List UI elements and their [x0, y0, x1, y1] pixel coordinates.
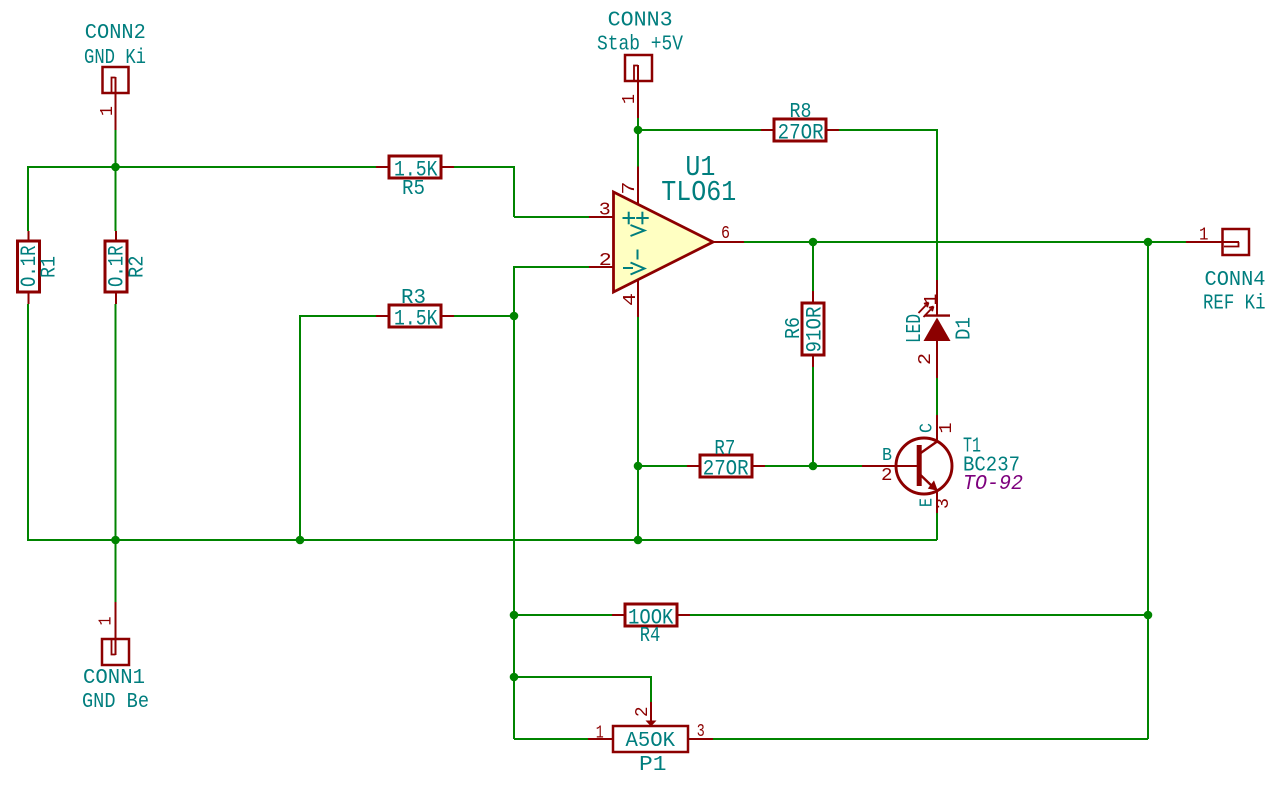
transistor T1 base pin	[862, 465, 917, 467]
resistor R4 body	[625, 604, 677, 626]
resistor R7 pins	[687, 465, 700, 467]
wire inverting input vertical	[513, 266, 515, 739]
pin name - of U1 pin 2	[623, 267, 633, 269]
resistor R3 pins	[376, 315, 389, 317]
op-amp U1 body	[614, 192, 714, 292]
LED D1 body	[924, 316, 951, 341]
svg-text:B: B	[882, 446, 892, 466]
resistor R7 body	[700, 455, 752, 477]
svg-text:TO-92: TO-92	[963, 473, 1023, 496]
wire to P1 pin 1	[514, 738, 588, 740]
wire to wiper horizontal	[514, 676, 651, 678]
svg-text:2: 2	[916, 353, 936, 365]
potentiometer P1 body	[613, 726, 688, 752]
svg-text:1: 1	[937, 423, 957, 434]
svg-text:REF Ki: REF Ki	[1203, 293, 1266, 316]
wire corner down to LED	[936, 129, 938, 280]
junction R6 / R7	[809, 462, 818, 471]
wire R8 to corner	[838, 129, 938, 131]
resistor R5 body	[389, 156, 441, 178]
svg-text:R5: R5	[402, 178, 425, 201]
LED D1 light arrows	[919, 303, 934, 318]
svg-text:1: 1	[596, 724, 604, 744]
svg-text:2: 2	[633, 707, 653, 718]
svg-text:R2: R2	[127, 256, 150, 279]
wire op-amp pin 2 horizontal	[514, 266, 589, 268]
svg-text:27OR: 27OR	[778, 121, 824, 146]
svg-text:1: 1	[922, 294, 942, 306]
wire op-amp pin 4 down	[637, 317, 639, 540]
svg-text:GND Ki: GND Ki	[84, 47, 146, 70]
junction inverting node	[510, 312, 519, 321]
svg-text:R3: R3	[401, 287, 426, 310]
svg-text:A5OK: A5OK	[626, 730, 676, 753]
wire R1 bottom	[27, 304, 29, 540]
junction +5V node	[634, 126, 643, 135]
svg-text:TLO61: TLO61	[661, 176, 736, 209]
junction output / feedback	[1144, 238, 1153, 247]
resistor R6 body	[802, 303, 824, 355]
wire R4 right	[689, 614, 1148, 616]
wire R3 right	[452, 315, 514, 317]
op-amp U1 pin 6 stub	[710, 241, 744, 243]
op-amp U1 pin 4 stub	[637, 279, 639, 317]
svg-text:1: 1	[620, 94, 640, 104]
junction ground bus / R2	[111, 536, 120, 545]
junction wiper branch	[510, 673, 519, 682]
svg-text:R7: R7	[714, 438, 735, 461]
svg-text:3: 3	[934, 498, 954, 509]
junction ground bus / pin4	[634, 536, 643, 545]
svg-text:D1: D1	[954, 317, 977, 340]
wire ground bus bottom horizontal	[27, 539, 937, 541]
svg-text:3: 3	[599, 201, 611, 221]
wire wiper vertical	[650, 676, 652, 702]
op-amp U1 pin 7 stub	[637, 167, 639, 205]
resistor R6 pins	[812, 291, 814, 303]
junction output / R6	[809, 238, 818, 247]
svg-text:R1: R1	[39, 256, 62, 278]
LED D1 pin 1 stub	[936, 280, 938, 316]
wire R6 bottom	[812, 367, 814, 466]
svg-text:CONN3: CONN3	[608, 10, 673, 33]
svg-text:1: 1	[98, 106, 118, 116]
svg-text:1.5K: 1.5K	[394, 307, 438, 332]
pin name V- of U1 pin 4	[631, 250, 645, 275]
wire R7 right to base	[764, 465, 862, 467]
transistor T1 collector pin	[936, 415, 938, 442]
wire to op-amp pin 3	[514, 216, 589, 218]
wire R2 top	[115, 130, 117, 231]
transistor T1 body	[896, 438, 952, 494]
junction V- / R7	[634, 462, 643, 471]
wire CONN3 to pin 7	[637, 118, 639, 167]
wire right vertical feedback	[1147, 242, 1149, 739]
wire R2 bottom to CONN1	[115, 304, 117, 602]
svg-text:2: 2	[881, 466, 893, 486]
svg-text:R4: R4	[640, 625, 661, 648]
resistor R1 pins	[28, 231, 30, 241]
resistor R8 pins	[761, 129, 774, 131]
resistor R2 pins	[115, 231, 117, 241]
wire bottom right horizontal to P1 pin 3	[713, 738, 1148, 740]
potentiometer P1 pins	[588, 738, 613, 740]
svg-text:P1: P1	[639, 754, 667, 777]
svg-text:2: 2	[599, 251, 612, 271]
pin name + of U1 pin 3	[623, 212, 636, 225]
wire to R7 left	[638, 465, 688, 467]
connector CONN4	[1186, 229, 1249, 255]
svg-text:R8: R8	[790, 101, 812, 124]
resistor R8 body	[774, 119, 826, 141]
potentiometer P1 wiper	[650, 702, 652, 721]
wire R5 output right	[452, 166, 514, 168]
svg-text:6: 6	[721, 224, 730, 244]
op-amp U1 pin 2 stub	[589, 266, 614, 268]
connector CONN3	[625, 55, 652, 118]
wire GND bus top horizontal	[28, 166, 376, 168]
svg-text:1: 1	[1199, 226, 1209, 246]
LED D1 pin 2 stub	[936, 340, 938, 378]
wire R5 to pin3 vertical	[513, 166, 515, 217]
svg-text:7: 7	[620, 182, 640, 195]
svg-text:GND Be: GND Be	[82, 691, 149, 714]
wire R3 left horizontal	[300, 315, 376, 317]
wire +5V to R8	[638, 129, 762, 131]
svg-text:CONN4: CONN4	[1205, 269, 1266, 292]
connector CONN2	[103, 67, 129, 130]
svg-text:C: C	[918, 423, 938, 433]
svg-text:91OR: 91OR	[803, 307, 828, 353]
junction R4 right	[1144, 611, 1153, 620]
junction GND Ki node	[111, 163, 120, 172]
wire R4 left	[514, 614, 613, 616]
svg-text:R6: R6	[783, 317, 806, 339]
svg-text:CONN2: CONN2	[85, 22, 146, 45]
svg-text:CONN1: CONN1	[83, 667, 145, 690]
junction R4 left	[510, 611, 519, 620]
resistor R2 body	[105, 241, 127, 292]
wire LED to collector	[936, 378, 938, 415]
connector CONN1	[102, 602, 129, 665]
wire emitter down	[936, 513, 938, 540]
svg-text:1: 1	[97, 617, 117, 626]
wire R3 left vertical	[299, 315, 301, 540]
svg-text:Stab +5V: Stab +5V	[597, 34, 683, 57]
wire R6 top	[812, 242, 814, 291]
transistor T1 emitter pin	[936, 491, 938, 514]
resistor R5 pins	[376, 166, 389, 168]
resistor R3 body	[389, 305, 441, 327]
svg-text:3: 3	[697, 722, 705, 742]
pin name V+ of U1 pin 7	[631, 212, 649, 236]
junction ground bus / R3	[296, 536, 305, 545]
wire R1 top	[27, 166, 29, 231]
svg-text:4: 4	[621, 293, 641, 306]
resistor R4 pins	[612, 614, 625, 616]
resistor R1 body	[18, 241, 40, 292]
wire output bus horizontal	[744, 241, 1186, 243]
svg-text:LED: LED	[904, 314, 927, 343]
op-amp U1 pin 3 stub	[589, 216, 614, 218]
